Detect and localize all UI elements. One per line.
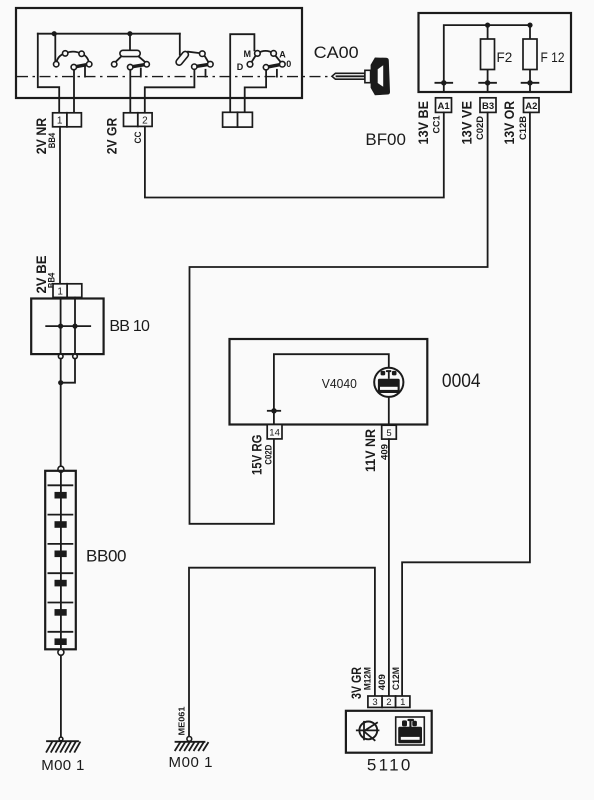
svg-text:BB00: BB00: [86, 547, 127, 566]
plus mark A2: [522, 80, 539, 85]
svg-text:BB4: BB4: [47, 133, 57, 149]
key symbol in 5110: [357, 722, 379, 741]
switch S4 arc M to A: [257, 51, 273, 54]
ignition key bow hole: [378, 65, 384, 87]
mechanical linkage dash-dot line: [17, 76, 332, 78]
connector 1 of BB10: [53, 284, 82, 298]
node dot fuse F12 top: [527, 23, 532, 28]
wire sw4 lever to connector 3: [245, 70, 266, 112]
wire top bus of CA00: [38, 33, 180, 35]
warning lamp V4040 circle: [374, 368, 403, 397]
switch S1 lever: [74, 64, 89, 67]
svg-text:D: D: [237, 62, 244, 72]
switch S4 contact circles M A D 0: [247, 51, 285, 70]
wire BF00 top bus from A1: [444, 25, 530, 92]
svg-text:13V OR: 13V OR: [501, 101, 517, 145]
svg-text:14: 14: [269, 428, 280, 439]
wire sw4 M to D link: [252, 56, 256, 62]
junction box BB10: [31, 299, 103, 355]
switch S1 contact circles: [54, 51, 92, 70]
svg-text:A1: A1: [438, 101, 451, 112]
wire B3 to pin 14 of 0004: [190, 112, 488, 523]
ground M001 middle: [175, 742, 208, 750]
pin box A1: [436, 98, 452, 113]
switch S4 lever: [266, 64, 282, 67]
ignition key blade: [332, 73, 365, 79]
wire bus right drop to sw3: [179, 34, 181, 55]
fuse F2: [481, 39, 495, 70]
wire F12 branch: [529, 25, 531, 92]
wire battery center spine: [60, 472, 62, 647]
svg-text:0: 0: [286, 59, 291, 69]
fuse box BF00: [419, 13, 572, 92]
node dot BB10 left: [58, 324, 63, 329]
wire sw2 lever to connector 2 pin: [129, 70, 131, 113]
svg-text:BF00: BF00: [365, 130, 406, 149]
svg-text:15V RG: 15V RG: [248, 434, 264, 475]
svg-text:13V VE: 13V VE: [459, 101, 475, 145]
svg-text:3: 3: [372, 697, 377, 708]
wire sw2 link to linkage: [140, 69, 142, 77]
svg-text:C12B: C12B: [518, 115, 528, 140]
wire lamp to pin 5: [388, 397, 390, 425]
svg-text:M00 1: M00 1: [41, 757, 84, 774]
wire A2 to pin 1 of 5110: [402, 112, 530, 696]
svg-text:BB 10: BB 10: [109, 318, 150, 335]
wire A1 to connector 2 CC: [145, 112, 444, 197]
svg-text:5: 5: [386, 428, 391, 439]
wire left pin through BB10: [60, 297, 62, 354]
wire sw1 link to linkage: [84, 66, 86, 76]
battery BB00 box: [45, 471, 76, 650]
svg-text:CA00: CA00: [314, 43, 359, 62]
svg-text:F2: F2: [497, 50, 513, 65]
svg-text:409: 409: [377, 674, 387, 690]
terminal circle ground left: [59, 737, 63, 741]
svg-text:0004: 0004: [442, 371, 481, 392]
wire pin 5 down to pin 2 of 5110: [388, 439, 390, 696]
wire sw3 links: [188, 52, 208, 62]
svg-text:ME061: ME061: [177, 706, 186, 736]
control unit 0004 box: [230, 339, 428, 425]
pin box 1 of 5110: [396, 696, 410, 708]
wire BB10 internal bar: [46, 325, 90, 327]
plus mark A1: [435, 80, 452, 85]
svg-text:C02D: C02D: [475, 115, 485, 140]
terminal circle battery top: [58, 466, 64, 472]
wire right pin through BB10: [74, 297, 76, 354]
svg-text:13V BE: 13V BE: [415, 101, 431, 145]
wire bus left drop to connector 1: [38, 34, 59, 113]
svg-text:5110: 5110: [367, 756, 411, 775]
pin box 5: [382, 425, 397, 439]
ignition key collar: [365, 70, 371, 82]
wire sw4 link to linkage: [276, 70, 278, 77]
ignition key blade groove: [337, 75, 365, 77]
svg-text:11V NR: 11V NR: [362, 429, 378, 472]
svg-text:1: 1: [57, 286, 63, 297]
svg-text:2: 2: [386, 697, 391, 708]
wire F2 branch: [487, 25, 489, 92]
node junction dot below BB10: [58, 380, 63, 385]
terminal circle BB10 right: [73, 354, 78, 359]
wire pin 14 to lamp V4040: [274, 354, 389, 424]
fuse F12: [523, 39, 537, 70]
wire battery to ground: [60, 655, 62, 738]
connector 3 under CA00: [223, 112, 253, 127]
svg-text:F 12: F 12: [541, 50, 565, 65]
ignition key bow: [371, 58, 390, 96]
wire sw1 lever to connector 1 pin: [73, 70, 75, 113]
ignition switch unit CA00 box: [16, 8, 302, 98]
switch S2 lever: [130, 64, 147, 67]
svg-text:1: 1: [400, 697, 405, 708]
wire sw4 A to 0 link: [275, 56, 280, 62]
wire dot to sw2 bridge: [129, 34, 131, 51]
wire sw3 lever to connector 2 right cell: [145, 69, 195, 112]
battery icon white stripe V4040: [380, 387, 398, 390]
pin box 3 of 5110: [368, 696, 382, 708]
node dot BB10 right: [72, 324, 77, 329]
pin box 14: [267, 425, 282, 439]
switch S1 contact dome: [56, 52, 89, 65]
svg-text:B3: B3: [482, 101, 494, 112]
svg-text:M00 1: M00 1: [169, 754, 213, 771]
svg-text:C02D: C02D: [263, 444, 273, 464]
wire dot to sw1 contact: [54, 34, 56, 62]
terminal circle battery bottom: [58, 649, 64, 655]
svg-text:V4040: V4040: [322, 376, 357, 391]
battery icon inside V4040: [378, 370, 400, 393]
pin box B3: [480, 98, 496, 113]
battery tell-tale square in 5110: [396, 717, 425, 745]
svg-text:2: 2: [142, 115, 148, 126]
wire BB10 outputs join: [61, 359, 75, 467]
battery cell negative plates: [55, 492, 67, 645]
node junction dot sw1: [52, 31, 57, 36]
switch S2 bridge capsule: [120, 50, 140, 56]
switch S3 slanted capsule: [175, 50, 190, 66]
node junction dot sw2: [127, 31, 132, 36]
switch S3 contact circles: [192, 51, 214, 69]
svg-text:CC1: CC1: [432, 116, 442, 134]
switch S3 lever: [194, 64, 210, 67]
wire sw4 feed inverted U: [230, 34, 254, 112]
svg-text:C12M: C12M: [391, 667, 401, 690]
svg-text:M12M: M12M: [362, 667, 372, 690]
svg-text:2V GR: 2V GR: [104, 118, 120, 155]
plus mark B3: [479, 80, 496, 85]
svg-text:CC: CC: [133, 131, 143, 143]
pin box 2 of 5110: [382, 696, 396, 708]
svg-text:1: 1: [57, 116, 63, 127]
ground M001 left: [47, 741, 81, 752]
wire sw3 link to linkage: [205, 70, 207, 77]
svg-text:M: M: [244, 49, 252, 59]
wire sw2 spokes: [115, 56, 145, 62]
svg-text:A2: A2: [525, 101, 537, 112]
wire pin 3 of 5110 to middle ground: [189, 568, 375, 737]
switch S2 contact circles: [112, 62, 150, 70]
terminal circle ground middle: [187, 737, 192, 742]
pin box A2: [524, 98, 540, 113]
terminal circle BB10 left: [58, 354, 63, 359]
connector 1 under CA00: [53, 113, 82, 127]
node dot fuse F2 top: [485, 23, 490, 28]
instrument unit 5110 box: [346, 711, 432, 753]
connector 2 under CA00: [124, 113, 153, 127]
plus mark pin 14 wire: [268, 408, 280, 413]
wire connector 1 down to BB10 connector: [59, 127, 61, 284]
battery cell plates: [48, 485, 72, 632]
